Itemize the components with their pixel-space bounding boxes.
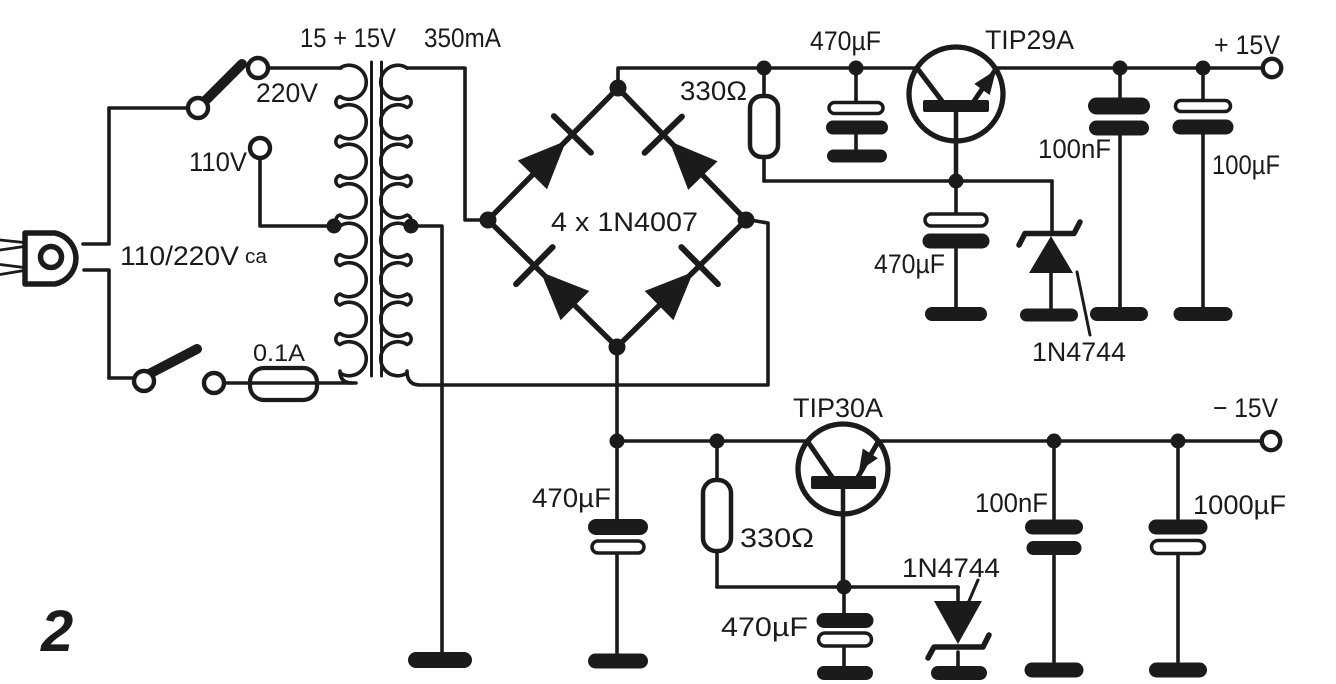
switch S1b	[109, 376, 135, 380]
capacitor C2	[954, 181, 958, 308]
svg-text:100nF: 100nF	[975, 488, 1048, 518]
diode D2	[670, 141, 718, 190]
wire 220V to transformer	[268, 66, 341, 70]
svg-text:+ 15V: + 15V	[1214, 30, 1280, 60]
zener Z1 1N4744	[1019, 222, 1080, 245]
diode D1	[518, 141, 566, 190]
svg-text:0.1A: 0.1A	[253, 340, 305, 367]
svg-text:100µF: 100µF	[1212, 150, 1280, 180]
diode D3	[541, 272, 590, 320]
capacitor 100nF bottom	[1052, 441, 1056, 664]
svg-text:350mA: 350mA	[424, 23, 501, 53]
svg-text:2: 2	[40, 599, 73, 664]
node bridge top	[610, 80, 627, 97]
wire minus rail	[617, 439, 1263, 443]
node Q1 base	[949, 174, 964, 189]
wire bridge bottom to minus rail	[615, 347, 619, 441]
wire base line top	[764, 179, 1052, 183]
svg-text:15 + 15V: 15 + 15V	[300, 23, 396, 53]
wire to zener Z1	[1050, 181, 1054, 230]
svg-text:TIP30A: TIP30A	[793, 393, 883, 423]
callout line Z2	[966, 580, 978, 608]
node bridge right	[738, 212, 755, 229]
node bridge left	[480, 212, 497, 229]
transformer primary winding	[340, 371, 352, 383]
svg-text:330Ω: 330Ω	[680, 76, 747, 106]
wire to switch	[109, 106, 190, 110]
svg-text:110/220V: 110/220V	[120, 241, 239, 271]
node C3 top	[610, 434, 625, 449]
capacitor 100uF	[1201, 68, 1205, 308]
zener Z2 1N4744	[934, 601, 982, 644]
capacitor C6 1000uF	[1176, 441, 1180, 664]
wire secondary bottom	[407, 220, 768, 385]
node 1000uF top	[1171, 434, 1186, 449]
wire 110V to tap	[260, 158, 330, 226]
bridge wiring	[488, 88, 746, 347]
node Q2 base	[837, 580, 852, 595]
node R2 top	[710, 434, 725, 449]
wire to zener Z2	[956, 587, 960, 601]
svg-text:100nF: 100nF	[1038, 134, 1111, 164]
svg-text:− 15V: − 15V	[1213, 393, 1278, 423]
svg-text:1000µF: 1000µF	[1193, 490, 1286, 520]
resistor R2	[715, 441, 719, 587]
svg-text:110V: 110V	[189, 147, 247, 177]
transistor Q1	[909, 47, 1003, 141]
capacitor C3	[615, 441, 619, 654]
transformer secondary winding	[381, 65, 411, 376]
transformer core	[370, 62, 373, 376]
node bridge bottom	[609, 339, 626, 356]
capacitor C4	[842, 587, 846, 667]
wire plug to split	[83, 108, 109, 378]
svg-text:4 x 1N4007: 4 x 1N4007	[551, 207, 698, 237]
transistor Q2	[798, 424, 888, 514]
node C1 top	[849, 61, 864, 76]
wire base line bottom	[717, 585, 958, 589]
capacitor C1	[854, 68, 858, 151]
callout line Z1	[1077, 272, 1090, 335]
svg-text:470µF: 470µF	[721, 612, 808, 642]
svg-text:1N4744: 1N4744	[902, 553, 1000, 583]
wire tap to ground	[411, 226, 442, 653]
switch S1a	[202, 64, 242, 104]
svg-text:470µF: 470µF	[874, 249, 945, 279]
svg-text:220V: 220V	[256, 78, 318, 108]
svg-text:TIP29A: TIP29A	[985, 25, 1074, 55]
terminal -15V	[1262, 432, 1280, 450]
svg-text:330Ω: 330Ω	[740, 523, 814, 553]
AC plug	[0, 240, 24, 275]
diode D4	[645, 272, 694, 320]
svg-text:ca: ca	[245, 246, 268, 268]
wire plus rail	[618, 68, 1264, 88]
capacitor 100nF top	[1118, 68, 1122, 308]
terminal 110V	[250, 138, 270, 158]
node primary tap	[327, 219, 342, 234]
node R1 top	[757, 61, 772, 76]
svg-text:1N4744: 1N4744	[1032, 337, 1126, 367]
node 100uF top	[1196, 61, 1211, 76]
svg-text:470µF: 470µF	[532, 483, 611, 513]
node 100nF bottom	[1047, 434, 1062, 449]
svg-text:470µF: 470µF	[810, 26, 881, 56]
wire secondary top to bridge left	[407, 68, 482, 220]
terminal +15V	[1263, 59, 1281, 77]
ground bar center tap	[408, 652, 472, 668]
node 100nF top	[1113, 61, 1128, 76]
node secondary tap	[404, 219, 419, 234]
resistor R1	[762, 68, 766, 181]
fuse F1	[224, 381, 356, 385]
